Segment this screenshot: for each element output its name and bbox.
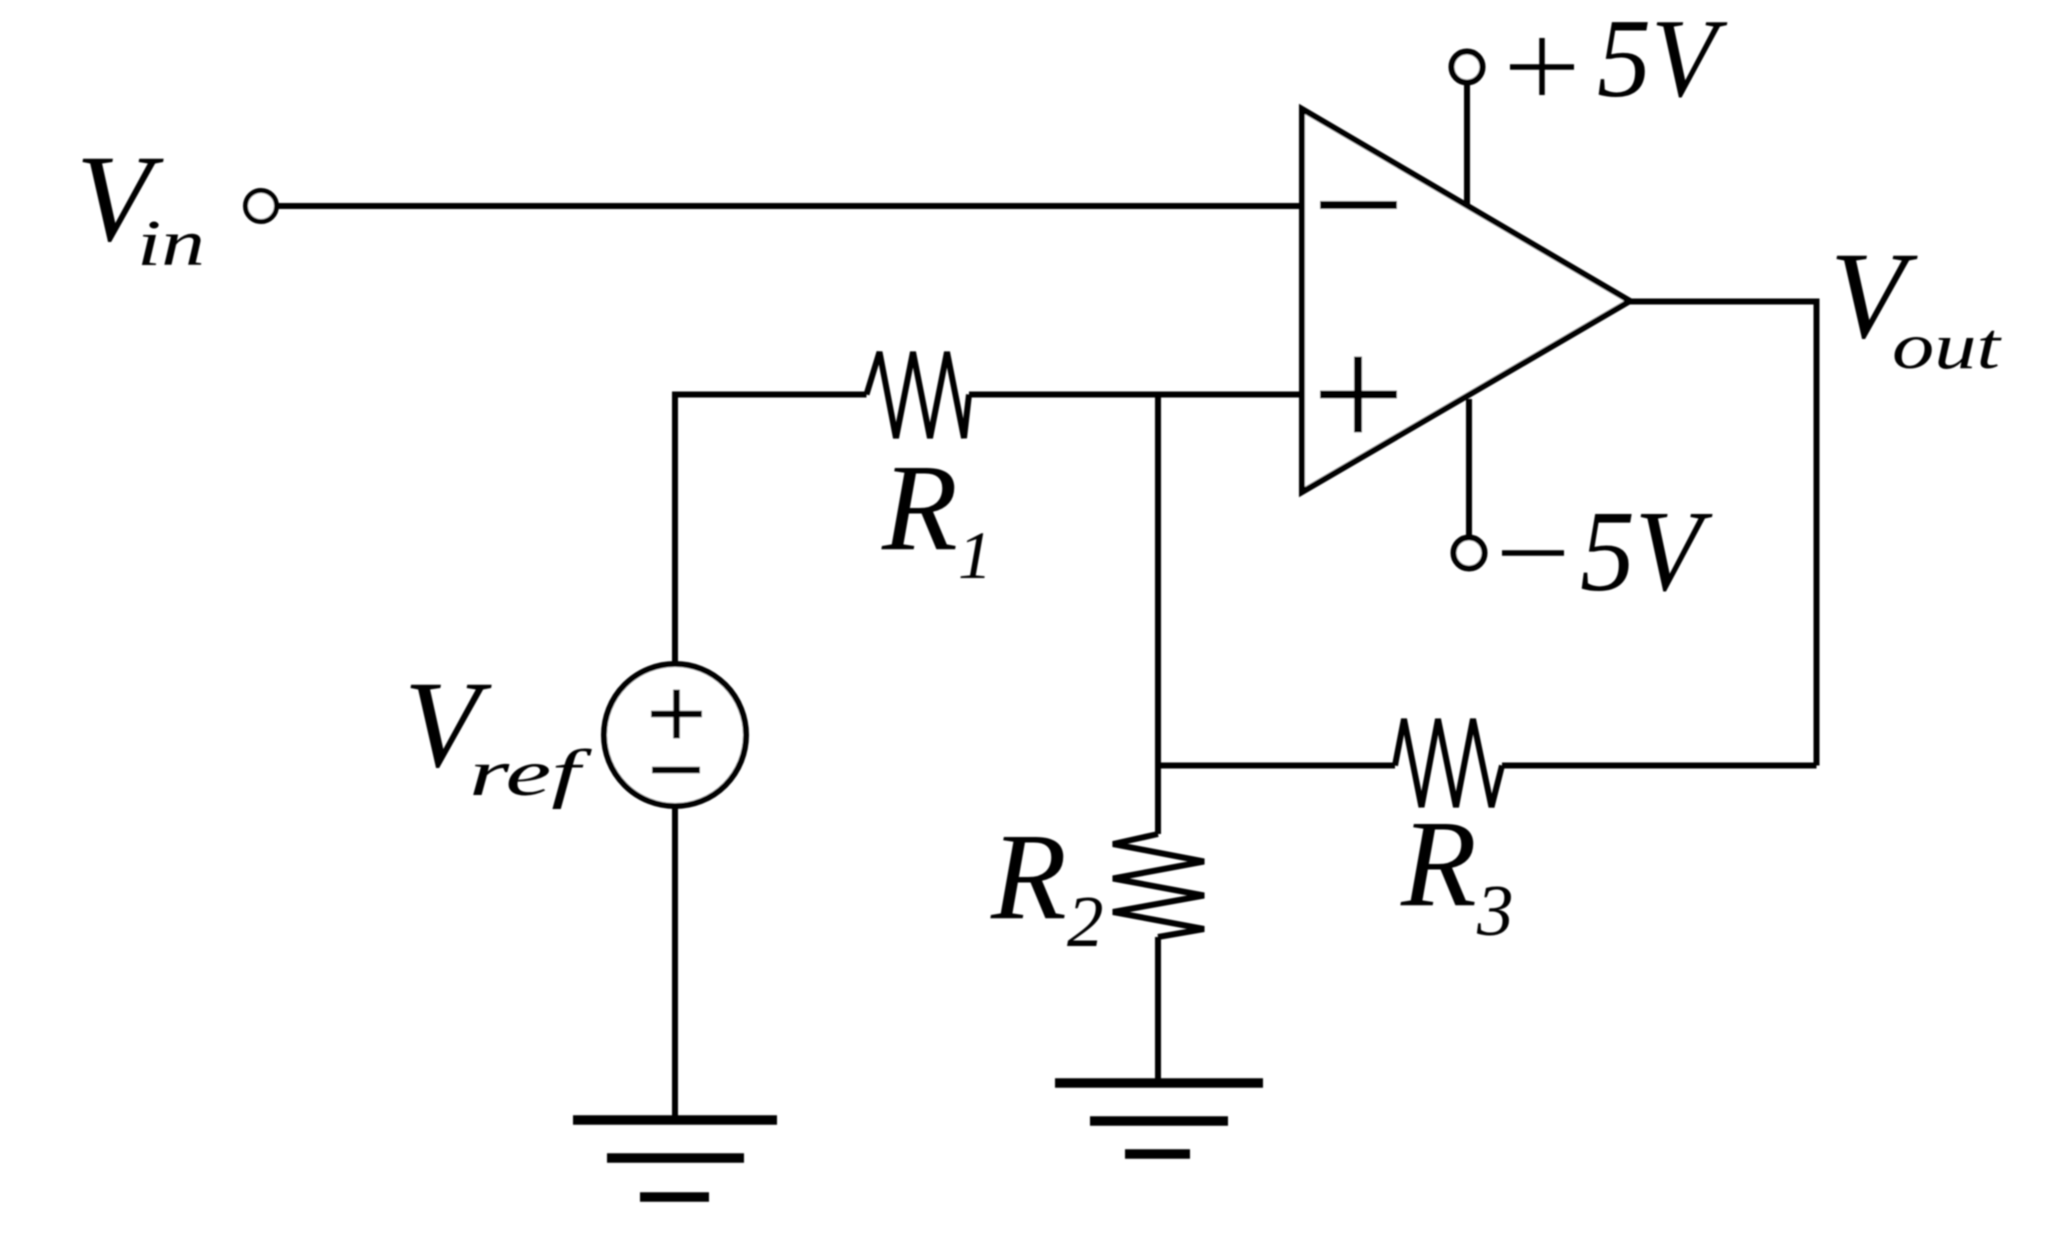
ground (below R2): [1055, 1083, 1263, 1154]
label -5V minus sign: [1502, 550, 1564, 556]
op-amp non-inverting input marker: [1320, 357, 1397, 433]
svg-text:R: R: [990, 808, 1067, 945]
wire node junction down to R2: [1155, 395, 1161, 835]
node Vin terminal: [246, 191, 277, 222]
wire -5V supply: [1466, 399, 1472, 535]
svg-text:2: 2: [1067, 881, 1104, 962]
wire Vin to op-amp inverting input: [277, 203, 1302, 209]
op-amp inverting input marker: [1320, 201, 1397, 209]
svg-text:3: 3: [1476, 870, 1514, 951]
wire Vref to ground: [672, 806, 678, 1120]
wire non-inverting input row (R1 right to op-amp): [969, 392, 1302, 398]
resistor R2: [1113, 834, 1204, 937]
source Vref: [604, 664, 746, 806]
node -5V terminal: [1454, 538, 1485, 569]
wire op-amp output to Vout corner and down: [1630, 302, 1817, 766]
wire feedback left segment (R3 to node): [1158, 763, 1395, 769]
wire R2 to ground: [1155, 937, 1161, 1083]
ground (below Vref): [573, 1120, 777, 1197]
resistor R3: [1395, 719, 1502, 807]
svg-text:1: 1: [958, 517, 992, 593]
svg-text:5V: 5V: [1580, 488, 1713, 616]
wire feedback right segment (Vout corner to R3): [1502, 763, 1817, 769]
wire +5V supply: [1464, 85, 1470, 204]
wire R1 left to Vref top: [675, 395, 867, 663]
resistor R1: [867, 352, 970, 438]
svg-text:ref: ref: [469, 737, 592, 810]
svg-text:in: in: [137, 207, 205, 280]
node +5V terminal: [1452, 52, 1483, 83]
svg-text:R: R: [881, 439, 958, 576]
svg-text:out: out: [1892, 310, 2002, 383]
op-amp U1: [1302, 109, 1630, 492]
svg-text:R: R: [1400, 795, 1477, 932]
svg-text:5V: 5V: [1597, 0, 1728, 121]
label +5V plus sign: [1510, 38, 1574, 95]
